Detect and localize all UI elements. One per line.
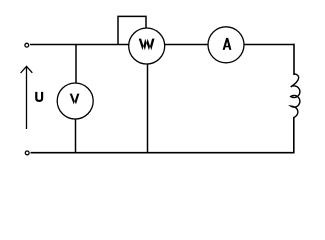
wire (top rail to voltmeter): [75, 45, 77, 84]
wire (wattmeter to bottom rail): [147, 64, 149, 153]
voltmeter V: [57, 83, 93, 119]
wire (right vertical, bottom): [293, 117, 295, 154]
wire (bottom rail): [31, 152, 295, 154]
wire (top: ammeter to right corner): [244, 44, 294, 46]
wire (voltmeter to bottom rail): [75, 119, 77, 153]
terminal (input, bottom-left): [25, 151, 29, 155]
label U: [35, 92, 43, 102]
wire (right vertical, top): [293, 44, 295, 75]
terminal (input, top-left): [25, 43, 29, 47]
inductor L: [291, 74, 300, 118]
wire (top: wattmeter to ammeter): [165, 44, 209, 46]
wattmeter W: [129, 28, 165, 64]
voltage arrow U: [21, 66, 33, 129]
ammeter A: [208, 27, 244, 63]
wire (top: left terminal to wattmeter): [30, 44, 129, 46]
wattmeter voltage-coil loop: [118, 16, 146, 44]
